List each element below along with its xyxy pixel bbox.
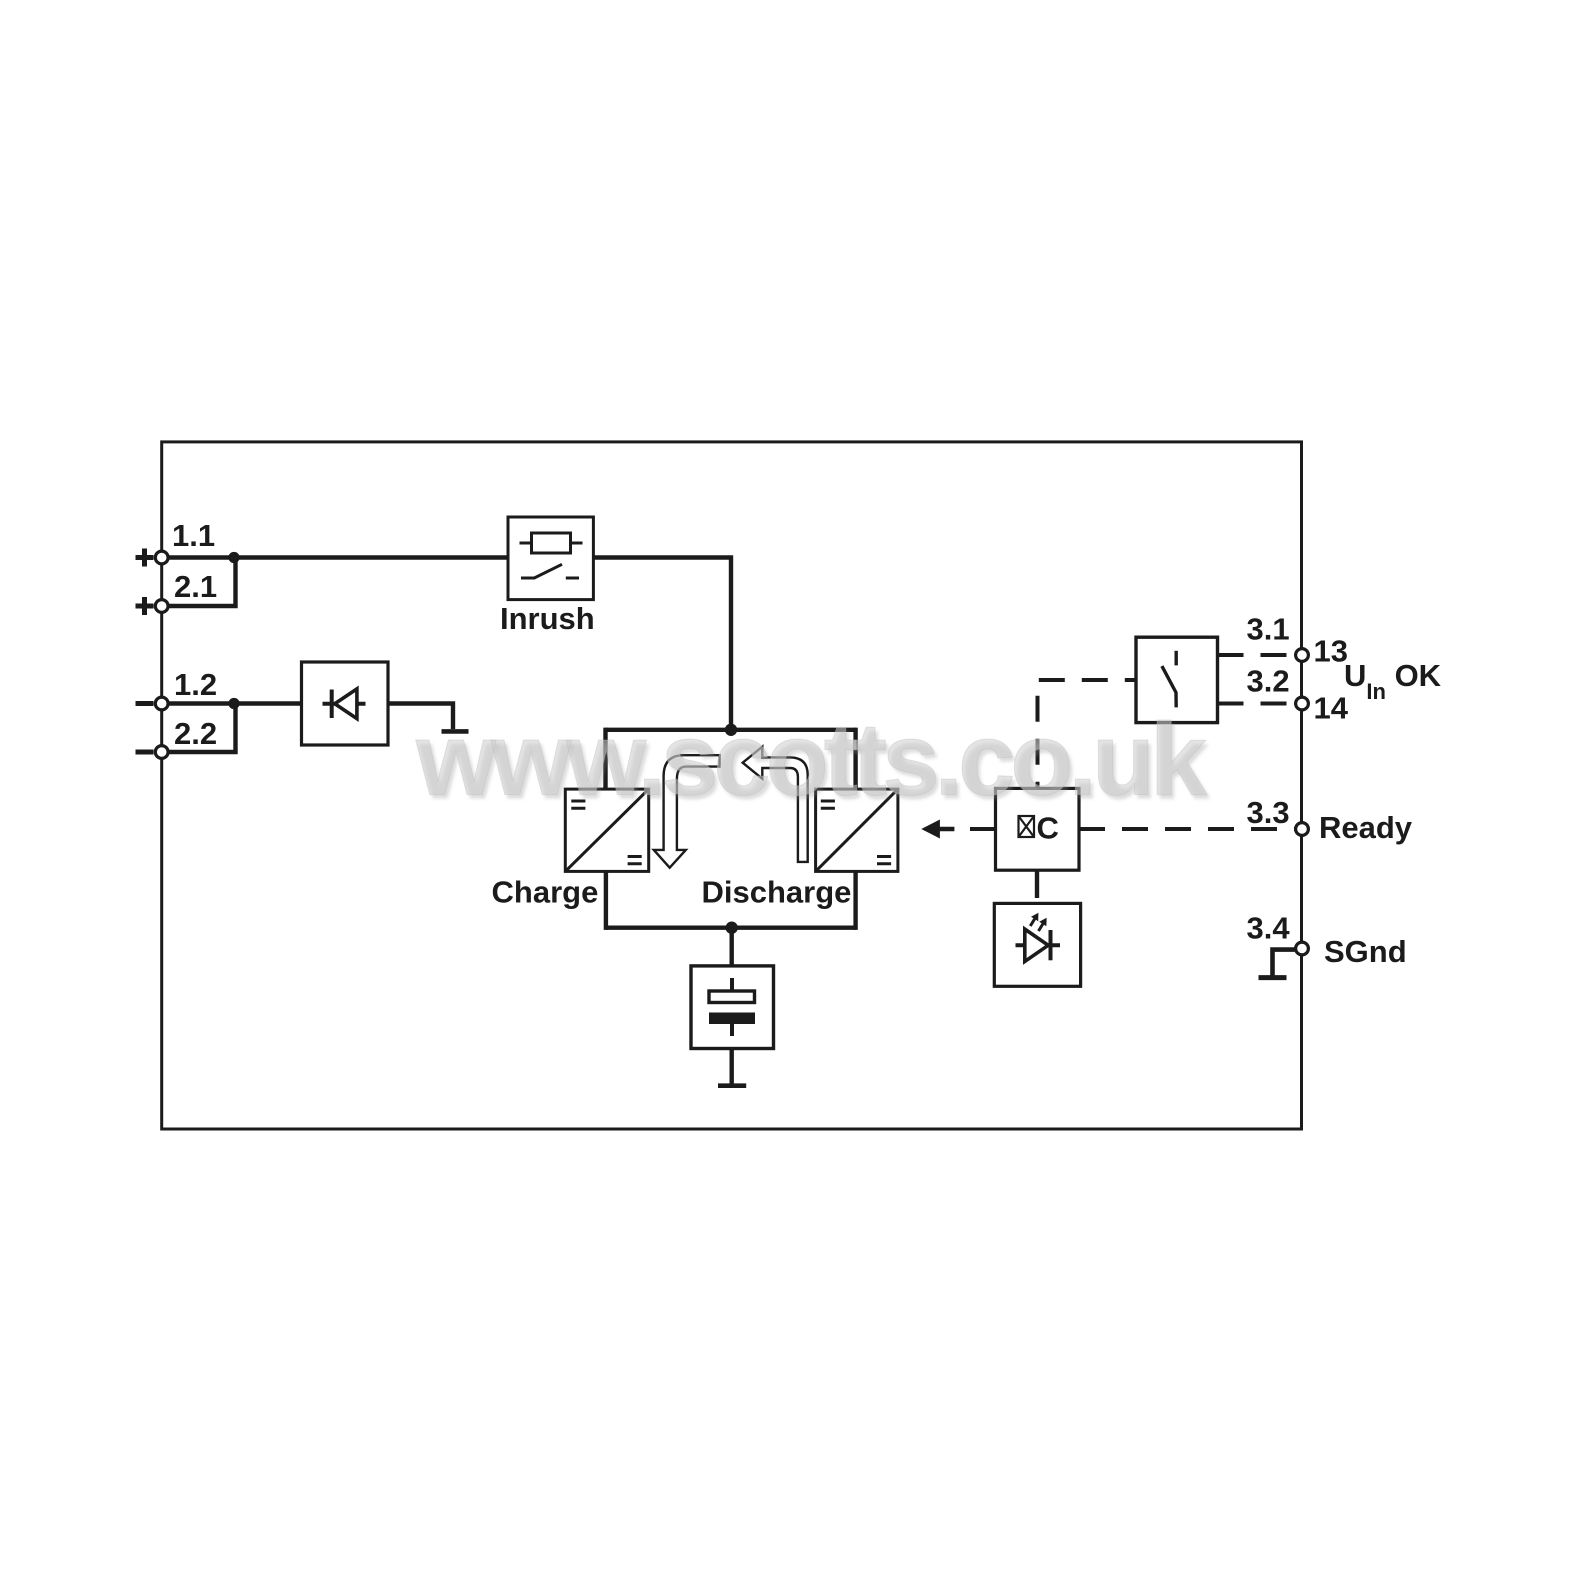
terminal 2.1 xyxy=(155,600,168,613)
svg-text:3.2: 3.2 xyxy=(1247,664,1290,699)
flow arrow down (charge direction) xyxy=(654,755,720,868)
Charge DC/DC converter block xyxy=(565,789,648,871)
terminal 2.2 xyxy=(155,746,168,759)
wire: Inrush output to top bus xyxy=(593,558,731,730)
terminal 13 xyxy=(1296,649,1309,662)
wire: terminal 2.2 loop up xyxy=(162,704,236,753)
diode block D1 xyxy=(302,662,389,745)
svg-text:13: 13 xyxy=(1314,634,1348,669)
dashed wire: switch to uC xyxy=(1038,680,1136,788)
svg-text:www.scotts.co.uk: www.scotts.co.uk xyxy=(415,702,1208,817)
ground bar (capacitor) xyxy=(718,1083,746,1088)
dashed wire: switch to terminal 14 xyxy=(1218,702,1295,706)
svg-text:3.4: 3.4 xyxy=(1247,911,1291,946)
Inrush block U1 xyxy=(508,517,593,600)
svg-text:Discharge: Discharge xyxy=(702,875,852,910)
wire: bus down to Discharge xyxy=(853,728,857,790)
dashed wire: uC to Ready terminal xyxy=(1079,827,1295,831)
node top bus junction xyxy=(725,724,737,736)
terminal Ready xyxy=(1296,823,1309,836)
wire: top bus xyxy=(606,728,856,732)
wire: Discharge down to bottom bus xyxy=(853,871,857,930)
svg-text:3.1: 3.1 xyxy=(1247,612,1290,647)
svg-text:Ready: Ready xyxy=(1319,810,1413,845)
SGnd ground symbol xyxy=(1273,950,1295,976)
terminal 1.1 xyxy=(155,551,168,564)
terminal 14 xyxy=(1296,697,1309,710)
wire: uC to LED xyxy=(1035,870,1039,898)
svg-text:Inrush: Inrush xyxy=(500,601,595,636)
ground bar (diode) xyxy=(442,729,469,734)
relay contact block K1 xyxy=(1136,637,1218,722)
svg-text:2.1: 2.1 xyxy=(174,569,217,604)
terminal 1.2 xyxy=(155,697,168,710)
plus sign terminal 1.1 xyxy=(136,549,154,567)
svg-text:1.2: 1.2 xyxy=(174,667,217,702)
svg-text:3.3: 3.3 xyxy=(1247,795,1290,830)
arrow into Discharge xyxy=(921,820,954,839)
wire: bottom bus xyxy=(606,926,856,930)
svg-text:Charge: Charge xyxy=(492,875,599,910)
wire: Charge down to bottom bus xyxy=(604,871,608,930)
dashed wire: switch to terminal 13 xyxy=(1218,653,1295,657)
flow arrow left (discharge direction) xyxy=(743,747,808,862)
node junction 1.2/2.2 xyxy=(228,698,239,709)
wire: diode to ground xyxy=(388,704,453,730)
svg-text:SGnd: SGnd xyxy=(1324,934,1407,969)
capacitor storage block C1 xyxy=(691,966,774,1049)
microcontroller block U2 xyxy=(996,788,1080,870)
node bottom bus junction xyxy=(726,922,738,934)
dashed wire: uC to Discharge arrow xyxy=(945,827,996,831)
svg-text:14: 14 xyxy=(1314,691,1349,726)
svg-text:1.1: 1.1 xyxy=(172,518,215,553)
minus sign terminal 2.2 xyxy=(136,750,154,755)
wire: bus down to Charge xyxy=(603,728,607,790)
wire: capacitor block to ground xyxy=(730,1049,734,1084)
svg-text:2.2: 2.2 xyxy=(174,716,217,751)
LED block xyxy=(994,903,1080,986)
node junction 1.1/2.1 xyxy=(228,552,239,563)
wire: bus down to capacitor block xyxy=(730,928,734,966)
wire: terminal 1.2 to diode xyxy=(162,701,302,705)
wire: terminal 1.1 to Inrush xyxy=(162,555,508,559)
wire: terminal 2.1 loop up xyxy=(162,558,236,607)
plus sign terminal 2.1 xyxy=(136,597,154,615)
minus sign terminal 1.2 xyxy=(136,701,154,706)
terminal SGnd xyxy=(1296,942,1309,955)
Discharge DC/DC converter block xyxy=(816,789,898,871)
main enclosure box xyxy=(162,442,1302,1129)
